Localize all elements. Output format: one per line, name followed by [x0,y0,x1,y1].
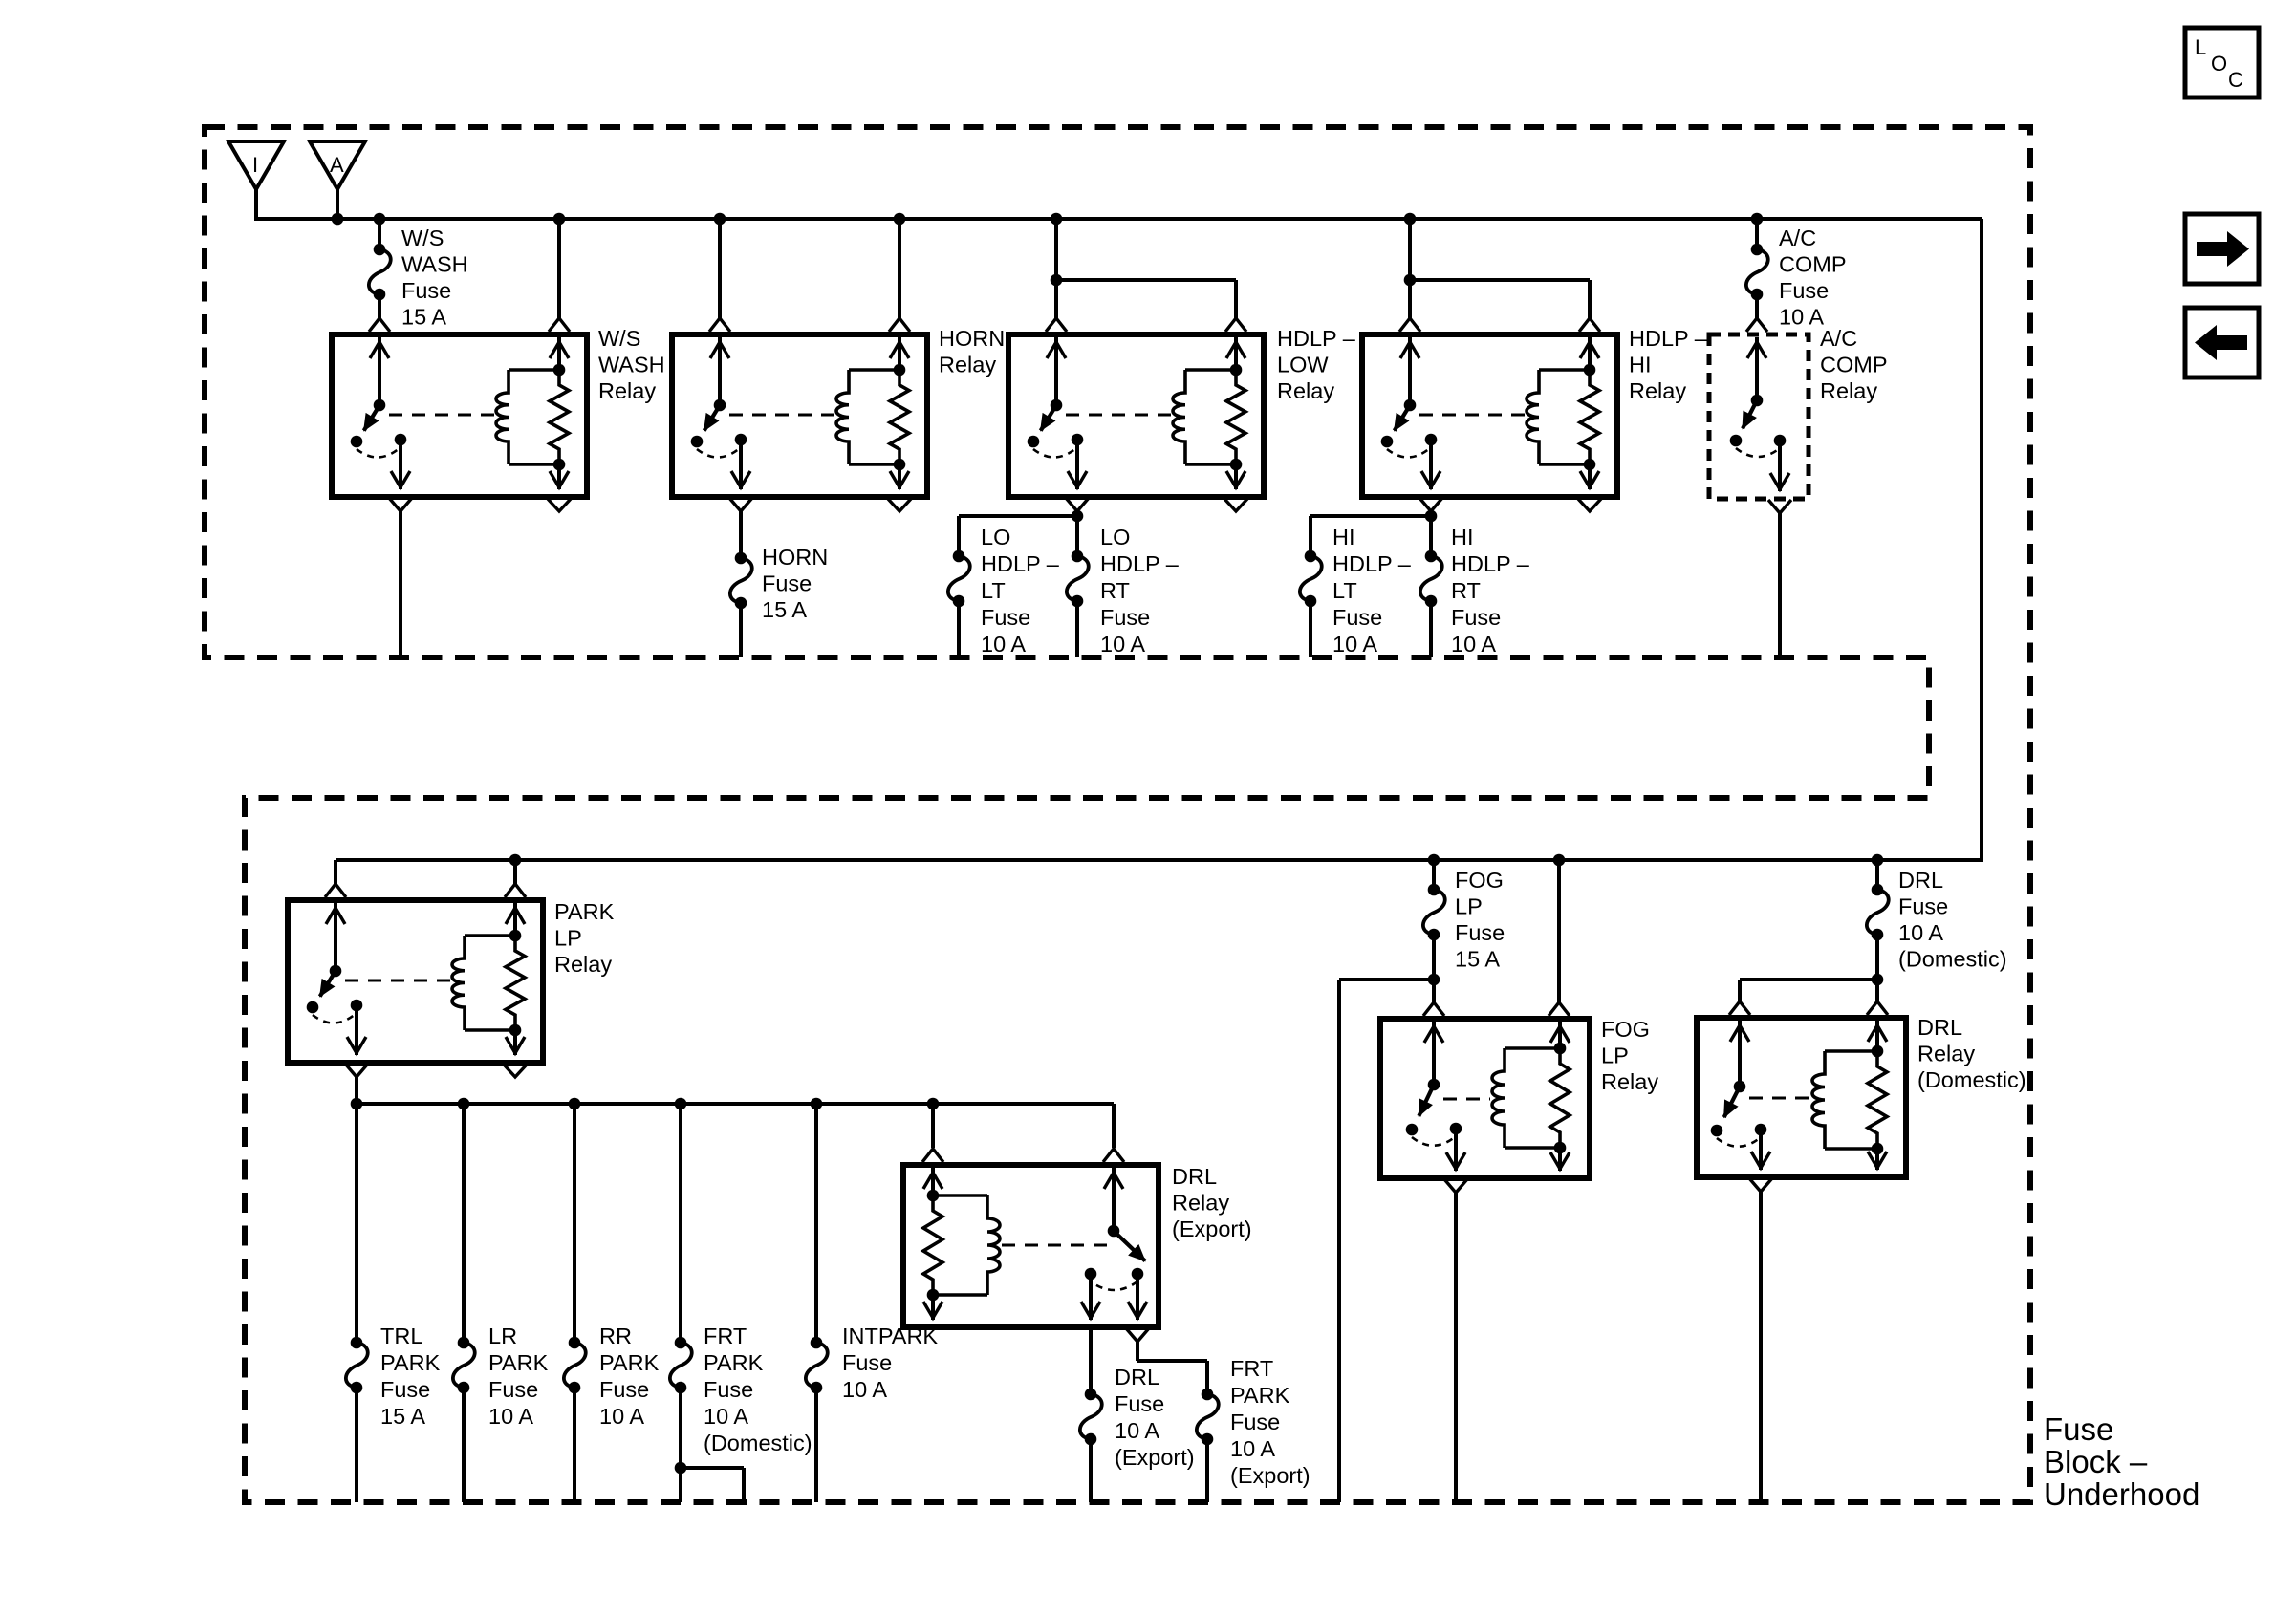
svg-text:LO: LO [1100,525,1130,549]
svg-text:Relay: Relay [1820,378,1877,403]
svg-text:DRL: DRL [1115,1365,1159,1389]
svg-text:Relay: Relay [1277,378,1334,403]
svg-text:(Export): (Export) [1115,1445,1195,1470]
svg-text:10 A: 10 A [1779,305,1824,330]
svg-text:Fuse: Fuse [1115,1391,1164,1416]
svg-text:10 A: 10 A [488,1404,533,1429]
svg-text:Underhood: Underhood [2044,1476,2199,1512]
svg-text:10 A: 10 A [1100,632,1145,657]
svg-text:HI: HI [1629,353,1652,377]
svg-text:(Domestic): (Domestic) [1898,947,2007,972]
svg-text:FOG: FOG [1455,868,1504,893]
svg-text:(Domestic): (Domestic) [1917,1067,2026,1092]
svg-text:FRT: FRT [704,1324,747,1348]
svg-text:10 A: 10 A [1115,1418,1159,1443]
svg-text:PARK: PARK [704,1350,764,1375]
svg-text:Fuse: Fuse [401,278,451,303]
svg-text:Fuse: Fuse [1779,278,1829,303]
svg-text:DRL: DRL [1898,868,1943,893]
svg-text:PARK: PARK [1230,1383,1290,1408]
svg-text:(Export): (Export) [1230,1463,1310,1488]
svg-text:HORN: HORN [939,326,1005,351]
svg-text:DRL: DRL [1172,1164,1217,1189]
svg-text:10 A: 10 A [1230,1436,1275,1461]
svg-text:Fuse: Fuse [1230,1410,1280,1434]
svg-text:LP: LP [1601,1044,1629,1068]
svg-text:Fuse: Fuse [981,605,1030,630]
svg-text:Fuse: Fuse [1898,894,1948,919]
svg-text:10 A: 10 A [599,1404,644,1429]
svg-text:LR: LR [488,1324,517,1348]
svg-text:10 A: 10 A [842,1377,887,1402]
svg-text:HORN: HORN [762,545,828,570]
svg-text:RT: RT [1100,578,1130,603]
svg-text:10 A: 10 A [1898,920,1943,945]
svg-text:C: C [2228,68,2243,92]
svg-text:LO: LO [981,525,1010,549]
svg-text:Fuse: Fuse [1332,605,1382,630]
svg-text:Relay: Relay [1917,1042,1975,1066]
svg-text:PARK: PARK [488,1350,549,1375]
svg-text:A: A [330,153,344,177]
svg-text:HDLP –: HDLP – [1451,551,1530,576]
svg-text:WASH: WASH [401,252,468,277]
svg-text:HDLP –: HDLP – [1332,551,1412,576]
svg-text:HDLP –: HDLP – [1100,551,1180,576]
svg-text:FOG: FOG [1601,1017,1650,1042]
svg-text:10 A: 10 A [1332,632,1377,657]
svg-text:FRT: FRT [1230,1356,1273,1381]
svg-text:LOW: LOW [1277,353,1329,377]
svg-text:Relay: Relay [1601,1069,1658,1094]
svg-text:O: O [2211,52,2227,75]
svg-text:HI: HI [1332,525,1355,549]
svg-text:HDLP –: HDLP – [981,551,1060,576]
svg-text:RR: RR [599,1324,632,1348]
svg-text:W/S: W/S [598,326,640,351]
svg-text:(Domestic): (Domestic) [704,1431,812,1455]
svg-text:COMP: COMP [1820,353,1888,377]
svg-text:INTPARK: INTPARK [842,1324,938,1348]
svg-text:PARK: PARK [554,899,615,924]
svg-text:HDLP –: HDLP – [1629,326,1708,351]
svg-text:Relay: Relay [554,952,612,977]
svg-text:LP: LP [554,926,582,951]
svg-text:Relay: Relay [1172,1191,1229,1216]
svg-text:DRL: DRL [1917,1015,1962,1040]
svg-text:15 A: 15 A [762,597,807,622]
svg-text:LP: LP [1455,894,1483,919]
svg-text:TRL: TRL [380,1324,422,1348]
svg-text:W/S: W/S [401,226,444,250]
svg-text:Fuse: Fuse [1455,920,1505,945]
svg-text:Fuse: Fuse [704,1377,753,1402]
svg-text:Relay: Relay [1629,378,1686,403]
svg-text:HDLP –: HDLP – [1277,326,1356,351]
svg-text:A/C: A/C [1779,226,1816,250]
svg-text:Fuse: Fuse [1100,605,1150,630]
svg-text:10 A: 10 A [981,632,1026,657]
svg-text:10 A: 10 A [1451,632,1496,657]
svg-text:Block –: Block – [2044,1444,2148,1479]
svg-text:15 A: 15 A [1455,947,1500,972]
svg-text:Fuse: Fuse [1451,605,1501,630]
svg-text:15 A: 15 A [380,1404,425,1429]
svg-text:L: L [2195,35,2206,59]
svg-text:Fuse: Fuse [762,571,812,596]
svg-text:Fuse: Fuse [842,1350,892,1375]
svg-text:I: I [252,153,258,177]
svg-text:A/C: A/C [1820,326,1857,351]
svg-text:PARK: PARK [599,1350,660,1375]
svg-text:Fuse: Fuse [380,1377,430,1402]
svg-text:RT: RT [1451,578,1481,603]
svg-text:Fuse: Fuse [2044,1411,2113,1447]
svg-text:Relay: Relay [598,378,656,403]
svg-text:PARK: PARK [380,1350,441,1375]
svg-text:LT: LT [1332,578,1357,603]
svg-text:10 A: 10 A [704,1404,748,1429]
svg-text:LT: LT [981,578,1006,603]
svg-text:HI: HI [1451,525,1474,549]
svg-text:15 A: 15 A [401,305,446,330]
svg-text:WASH: WASH [598,353,665,377]
svg-text:Fuse: Fuse [599,1377,649,1402]
svg-text:COMP: COMP [1779,252,1847,277]
svg-text:Fuse: Fuse [488,1377,538,1402]
svg-text:Relay: Relay [939,353,996,377]
svg-text:(Export): (Export) [1172,1217,1252,1241]
